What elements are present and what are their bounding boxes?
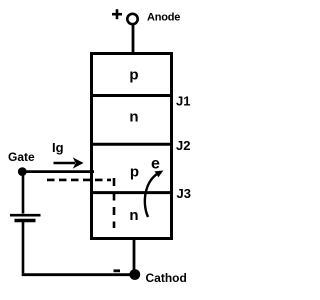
battery positive plate [10, 214, 41, 217]
Ig arrow [54, 157, 84, 168]
battery negative plate [15, 219, 36, 222]
svg-text:J1: J1 [176, 94, 190, 109]
wire anode to body [132, 25, 135, 55]
wire battery down [22, 222, 25, 273]
cathode node dot [129, 269, 140, 280]
wire gate to battery [22, 172, 25, 214]
gate wire [22, 170, 94, 173]
svg-text:e: e [151, 156, 160, 173]
svg-text:J2: J2 [176, 138, 190, 153]
svg-text:n: n [129, 207, 138, 224]
gate node dot [18, 167, 27, 176]
wire body to cathode [133, 239, 136, 272]
svg-text:n: n [129, 109, 138, 126]
dashed gate line horizontal [47, 179, 111, 182]
minus sign [114, 269, 121, 272]
junction J1 line [90, 94, 173, 97]
junction J2 line [90, 143, 173, 146]
thyristor body rectangle [92, 54, 172, 239]
svg-text:Cathod: Cathod [146, 271, 187, 285]
svg-text:J3: J3 [177, 186, 191, 201]
junction J3 line [90, 191, 173, 194]
bottom wire to cathode [22, 273, 131, 276]
anode terminal circle [127, 14, 137, 24]
anode plus sign [112, 9, 122, 19]
electron curved arrow [145, 171, 164, 218]
svg-text:Anode: Anode [147, 11, 180, 23]
svg-text:p: p [130, 164, 139, 181]
svg-text:Ig: Ig [52, 140, 64, 155]
svg-text:p: p [129, 67, 138, 84]
svg-text:Gate: Gate [8, 150, 35, 164]
dashed gate line vertical [113, 178, 116, 228]
